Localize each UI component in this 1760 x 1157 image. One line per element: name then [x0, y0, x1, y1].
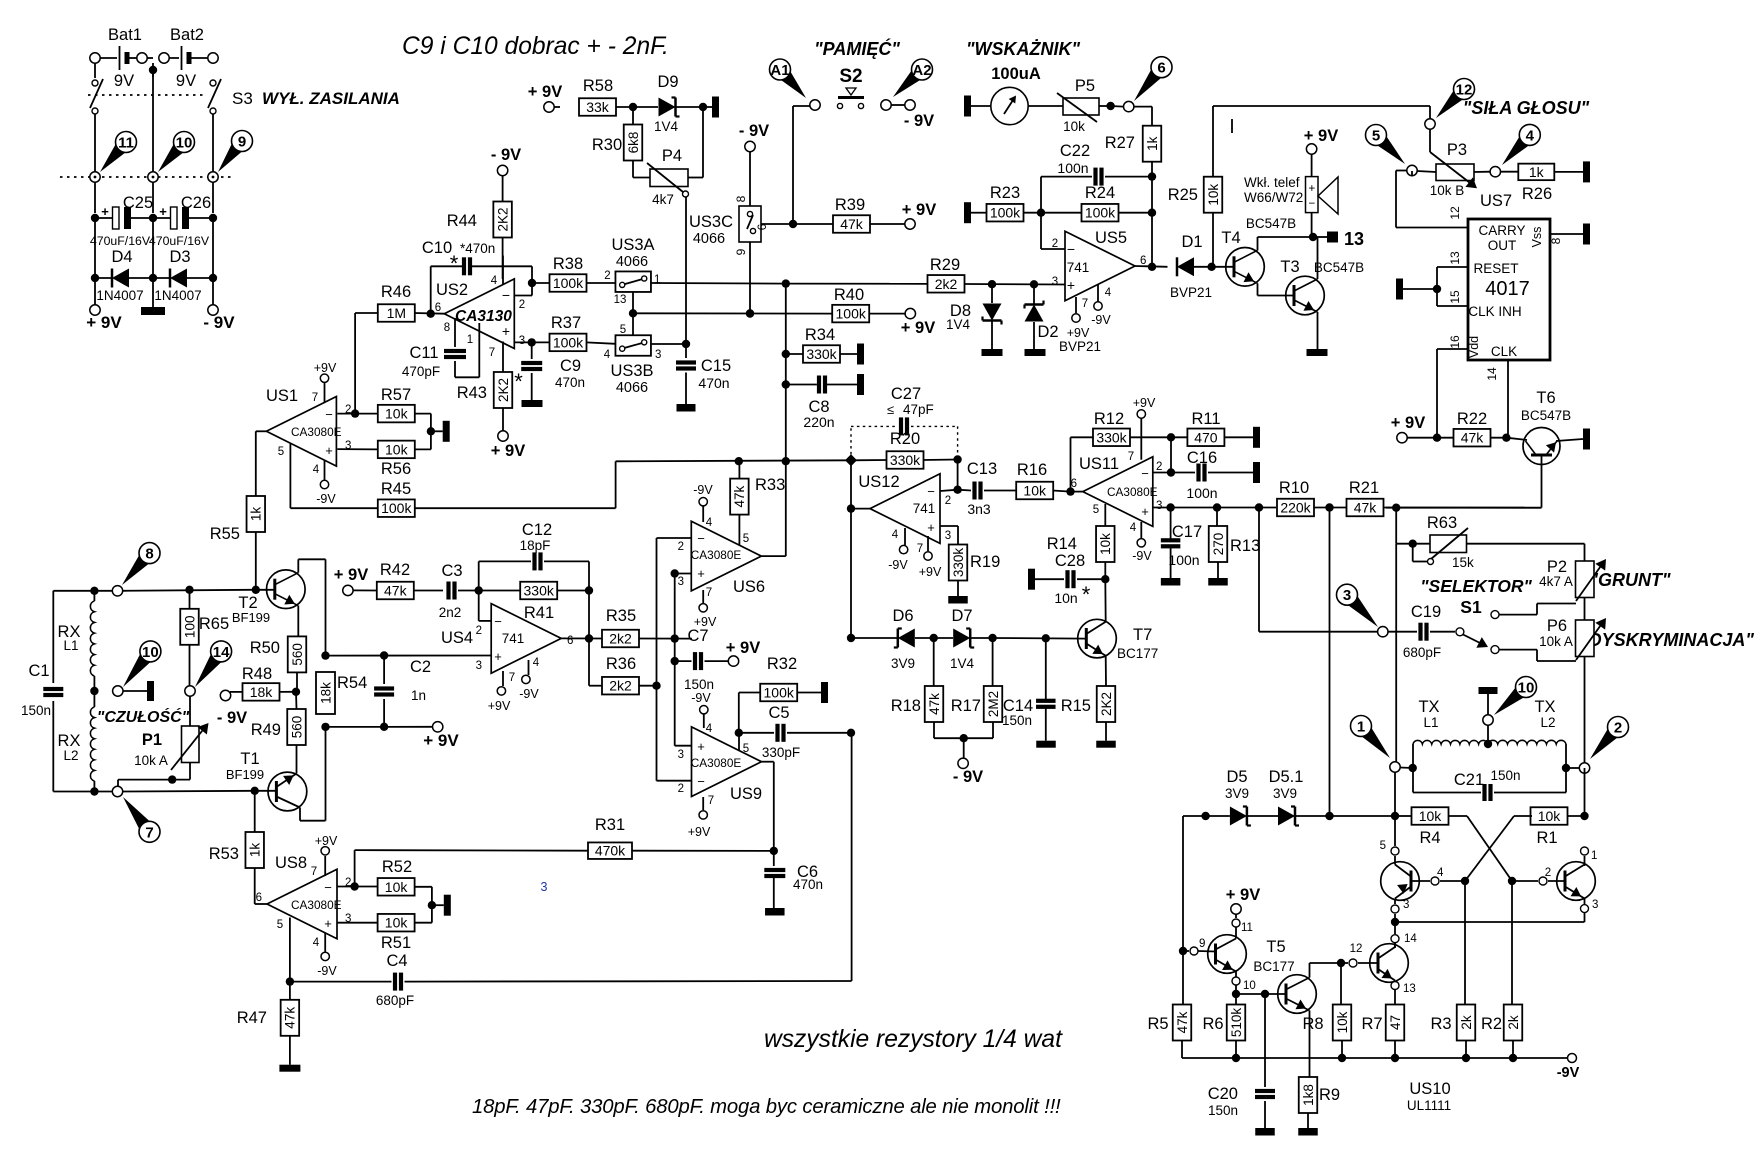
ground center: [152, 278, 154, 307]
svg-text:R15: R15: [1061, 697, 1091, 715]
svg-text:OUT: OUT: [1488, 238, 1517, 253]
svg-text:4: 4: [313, 464, 320, 476]
svg-text:3: 3: [345, 440, 351, 452]
svg-text:4017: 4017: [1485, 278, 1530, 300]
svg-text:+9V: +9V: [694, 615, 717, 629]
svg-text:L1: L1: [1423, 715, 1438, 730]
svg-text:T3: T3: [1280, 258, 1299, 276]
svg-text:330k: 330k: [951, 548, 966, 578]
svg-text:2: 2: [476, 625, 482, 637]
wire P4 wiper down: [685, 197, 687, 344]
svg-text:W66/W72: W66/W72: [1244, 190, 1303, 205]
svg-text:10: 10: [1243, 980, 1256, 992]
wire R10R21 junction down: [1329, 508, 1331, 817]
svg-text:150n: 150n: [1490, 768, 1520, 783]
svg-text:10k: 10k: [385, 406, 409, 422]
svg-text:10k: 10k: [1063, 119, 1085, 134]
wire to T7 base: [993, 637, 1086, 640]
svg-text:WYŁ. ZASILANIA: WYŁ. ZASILANIA: [262, 89, 400, 108]
wire US8 pin3: [338, 922, 378, 924]
meter 100uA: [991, 87, 1028, 124]
wire T4 emitter to T3: [1257, 283, 1259, 295]
svg-text:100k: 100k: [836, 306, 867, 322]
svg-text:−: −: [324, 880, 332, 895]
svg-text:R3: R3: [1430, 1015, 1451, 1033]
svg-text:4: 4: [892, 529, 899, 541]
wire US11 pin4: [1140, 522, 1142, 538]
svg-text:5: 5: [278, 446, 284, 458]
svg-text:7: 7: [1128, 451, 1134, 463]
svg-text:10k: 10k: [1206, 184, 1221, 206]
wire US9 pin2: [657, 780, 692, 782]
svg-text:R10: R10: [1279, 479, 1309, 497]
wire US3A out row: [651, 282, 786, 285]
wire -9V rail: [1182, 1057, 1567, 1059]
svg-text:R49: R49: [251, 721, 281, 739]
svg-text:US3B: US3B: [610, 362, 653, 380]
svg-text:13: 13: [614, 294, 627, 306]
svg-text:US11: US11: [1079, 455, 1119, 473]
wire X cross: [1467, 816, 1512, 881]
svg-text:10k: 10k: [385, 879, 409, 895]
svg-text:C12: C12: [522, 521, 552, 539]
svg-text:10k B: 10k B: [1430, 183, 1465, 198]
svg-text:UL1111: UL1111: [1407, 1098, 1451, 1113]
svg-text:15k: 15k: [1452, 555, 1474, 570]
svg-text:R22: R22: [1457, 410, 1487, 428]
svg-text:18pF. 47pF. 330pF. 680pF. moga: 18pF. 47pF. 330pF. 680pF. moga byc ceram…: [472, 1096, 1061, 1118]
svg-text:6: 6: [1140, 255, 1146, 267]
svg-text:10: 10: [142, 644, 159, 661]
svg-text:13: 13: [1344, 229, 1364, 249]
svg-text:560: 560: [289, 716, 304, 739]
svg-text:4: 4: [706, 517, 713, 529]
svg-text:CLK: CLK: [1491, 344, 1517, 359]
svg-text:2k2: 2k2: [609, 631, 632, 647]
svg-text:R26: R26: [1522, 185, 1552, 203]
svg-text:D3: D3: [169, 248, 190, 266]
svg-text:4: 4: [533, 657, 540, 669]
svg-text:US8: US8: [275, 854, 307, 872]
svg-text:1: 1: [467, 334, 473, 346]
svg-text:C21: C21: [1454, 771, 1484, 789]
svg-text:470k: 470k: [595, 843, 626, 859]
svg-text:US3A: US3A: [611, 236, 654, 254]
svg-text:+9V: +9V: [688, 825, 711, 839]
svg-text:+: +: [1308, 183, 1315, 195]
svg-text:4066: 4066: [616, 254, 648, 270]
svg-text:- 9V: - 9V: [739, 122, 769, 140]
node 2: [1590, 724, 1622, 759]
svg-text:S2: S2: [839, 66, 862, 87]
svg-text:33k: 33k: [586, 99, 610, 115]
svg-text:3: 3: [519, 335, 525, 347]
svg-text:−: −: [1067, 241, 1075, 257]
svg-text:100n: 100n: [1168, 552, 1199, 568]
svg-text:1n: 1n: [411, 688, 426, 703]
svg-text:2: 2: [604, 270, 610, 282]
svg-text:R42: R42: [380, 561, 410, 579]
svg-text:+: +: [927, 520, 935, 535]
wire US8 pin2: [338, 886, 378, 888]
svg-text:D7: D7: [951, 607, 972, 625]
svg-text:4: 4: [604, 349, 611, 361]
svg-text:P6: P6: [1547, 617, 1567, 635]
svg-text:3: 3: [945, 530, 951, 542]
svg-text:R6: R6: [1202, 1015, 1223, 1033]
svg-text:2K2: 2K2: [496, 378, 511, 402]
wire T6 emitter to R21: [1541, 455, 1543, 508]
svg-text:2K2: 2K2: [495, 207, 510, 231]
wire US2 pin4: [502, 256, 504, 285]
svg-text:BVP21: BVP21: [1059, 339, 1101, 354]
svg-text:D9: D9: [657, 73, 678, 91]
svg-text:- 9V: - 9V: [904, 112, 934, 130]
svg-text:330k: 330k: [1096, 429, 1127, 445]
wire US4 pin7: [502, 671, 504, 686]
svg-text:11: 11: [1241, 922, 1253, 934]
svg-text:- 9V: - 9V: [217, 709, 247, 727]
svg-text:T4: T4: [1221, 229, 1240, 247]
rail US6US9 pin2: [656, 538, 658, 781]
wire US11 out: [1066, 487, 1074, 495]
svg-text:12: 12: [1456, 82, 1473, 99]
svg-text:+ 9V: + 9V: [423, 731, 459, 750]
wall R57R56: [431, 430, 443, 432]
wire bottom row: [53, 791, 112, 793]
svg-text:−: −: [502, 287, 510, 303]
svg-text:R33: R33: [755, 476, 785, 494]
svg-text:4: 4: [1130, 522, 1137, 534]
svg-text:−: −: [1141, 466, 1149, 481]
svg-text:3: 3: [1403, 899, 1409, 911]
svg-text:330k: 330k: [524, 583, 555, 599]
svg-text:4: 4: [313, 937, 320, 949]
svg-text:10k A: 10k A: [1539, 634, 1573, 649]
rail US6US9 pin3: [674, 574, 676, 746]
svg-text:10: 10: [176, 135, 193, 152]
node 10 mid: [123, 649, 155, 687]
svg-text:4: 4: [1437, 867, 1444, 879]
svg-text:15: 15: [1448, 290, 1462, 304]
svg-text:−: −: [697, 531, 705, 546]
svg-text:9V: 9V: [176, 72, 196, 90]
wire T1 top lead: [296, 745, 298, 774]
svg-text:47k: 47k: [927, 693, 942, 715]
wire mid column down: [785, 284, 787, 462]
wire T5 emitter: [1309, 1011, 1311, 1078]
wire US11 pin3 row: [1152, 507, 1276, 509]
svg-text:3: 3: [1343, 587, 1351, 604]
svg-text:9: 9: [734, 248, 748, 255]
svg-text:R36: R36: [606, 655, 636, 673]
wall R52R51: [432, 904, 444, 906]
wire S1 down-throw: [1499, 649, 1537, 651]
svg-text:18pF: 18pF: [520, 538, 551, 553]
svg-text:R16: R16: [1017, 461, 1047, 479]
svg-text:C19: C19: [1411, 603, 1441, 621]
wire US12 pin3 to R19: [940, 525, 958, 527]
svg-text:-9V: -9V: [1091, 313, 1111, 327]
svg-text:560: 560: [290, 643, 305, 666]
wire +9V out: [94, 278, 96, 305]
svg-text:D4: D4: [111, 248, 132, 266]
svg-text:−: −: [325, 407, 333, 422]
svg-text:BC177: BC177: [1253, 959, 1294, 974]
svg-text:+: +: [159, 204, 167, 219]
svg-text:330k: 330k: [890, 452, 921, 468]
wire pin13 row to R40: [633, 312, 833, 314]
svg-text:5: 5: [1380, 840, 1386, 852]
svg-text:100k: 100k: [553, 275, 584, 291]
svg-text:"CZUŁOŚĆ": "CZUŁOŚĆ": [97, 707, 190, 726]
svg-text:3: 3: [1156, 500, 1162, 512]
svg-text:8: 8: [444, 322, 450, 334]
svg-text:"PAMIĘĆ": "PAMIĘĆ": [814, 38, 900, 59]
svg-text:1k: 1k: [1529, 164, 1545, 180]
wire US1 pin2: [337, 413, 355, 415]
wire US9 pin3: [675, 745, 692, 747]
svg-text:1V4: 1V4: [950, 656, 975, 671]
svg-text:R35: R35: [606, 607, 636, 625]
svg-text:US2: US2: [436, 281, 468, 299]
svg-text:1N4007: 1N4007: [96, 288, 143, 303]
svg-text:47: 47: [1388, 1015, 1403, 1030]
wire bat1 left: [94, 63, 96, 78]
svg-text:Vdd: Vdd: [1467, 336, 1481, 358]
svg-text:R44: R44: [447, 212, 477, 230]
svg-text:470n: 470n: [793, 877, 823, 892]
svg-text:R4: R4: [1419, 829, 1440, 847]
terminal battery row: [90, 53, 100, 63]
svg-text:5: 5: [1372, 128, 1380, 145]
svg-text:US3C: US3C: [689, 213, 733, 231]
svg-text:4066: 4066: [616, 380, 648, 396]
svg-text:R58: R58: [583, 77, 613, 95]
svg-text:"SIŁA GŁOSU": "SIŁA GŁOSU": [1463, 98, 1590, 118]
svg-text:"WSKAŻNIK": "WSKAŻNIK": [966, 39, 1081, 59]
svg-text:6: 6: [1157, 60, 1165, 77]
wire US4 pin2: [479, 620, 492, 622]
svg-text:100n: 100n: [1057, 160, 1088, 176]
svg-text:10k A: 10k A: [134, 753, 168, 768]
svg-text:12: 12: [1448, 206, 1462, 220]
wire US5 pin2: [1040, 213, 1042, 249]
svg-text:2: 2: [678, 541, 684, 553]
svg-text:"GRUNT": "GRUNT": [1589, 570, 1671, 590]
svg-text:R31: R31: [595, 816, 625, 834]
svg-text:+: +: [502, 323, 510, 339]
svg-text:470n: 470n: [698, 375, 729, 391]
svg-text:680pF: 680pF: [376, 993, 414, 1008]
svg-text:BF199: BF199: [226, 767, 264, 782]
svg-text:7: 7: [509, 672, 515, 684]
svg-text:D5.1: D5.1: [1269, 768, 1304, 786]
svg-text:+9V: +9V: [488, 699, 511, 713]
svg-text:P3: P3: [1447, 141, 1467, 159]
svg-text:4: 4: [491, 275, 498, 287]
svg-text:3: 3: [1052, 276, 1058, 288]
svg-text:7: 7: [708, 795, 714, 807]
wall meter left: [964, 96, 971, 117]
svg-text:US10: US10: [1409, 1080, 1450, 1098]
svg-text:9V: 9V: [114, 72, 134, 90]
svg-text:C28: C28: [1055, 552, 1085, 570]
svg-text:47k: 47k: [384, 583, 408, 599]
svg-text:-9V: -9V: [519, 687, 539, 701]
svg-text:47pF: 47pF: [903, 402, 934, 417]
wire US4 pin4: [528, 660, 530, 675]
svg-text:BC547B: BC547B: [1521, 408, 1571, 423]
wire US1 pin4: [324, 460, 326, 480]
svg-text:1V4: 1V4: [654, 119, 679, 134]
svg-text:2: 2: [1156, 461, 1162, 473]
wire US9 out: [762, 761, 774, 763]
wire +9V row C2: [326, 726, 433, 728]
svg-text:2k2: 2k2: [609, 678, 632, 694]
svg-text:R25: R25: [1168, 186, 1198, 204]
svg-text:R47: R47: [237, 1009, 267, 1027]
svg-text:1k: 1k: [249, 507, 264, 522]
svg-text:7: 7: [312, 392, 318, 404]
node 5: [1373, 132, 1405, 164]
svg-text:R30: R30: [592, 136, 622, 154]
wire US6 out: [761, 555, 786, 557]
svg-text:7: 7: [489, 347, 495, 359]
node 11: [100, 139, 130, 172]
wire S2 left down: [793, 105, 810, 107]
svg-text:R55: R55: [210, 525, 240, 543]
svg-text:+ 9V: + 9V: [491, 442, 525, 460]
svg-text:150n: 150n: [21, 703, 51, 718]
svg-text:4k7 A: 4k7 A: [1539, 574, 1573, 589]
svg-text:R50: R50: [250, 639, 280, 657]
wire S1 up-throw: [1491, 611, 1499, 619]
svg-text:L1: L1: [63, 638, 78, 653]
svg-text:R18: R18: [891, 697, 921, 715]
node 9: [218, 139, 246, 172]
transistor US10 QC (pins 14,12,13): [1370, 944, 1409, 983]
svg-text:100n: 100n: [1186, 485, 1217, 501]
svg-text:7: 7: [1082, 298, 1088, 310]
svg-text:7: 7: [145, 824, 153, 841]
svg-text:18k: 18k: [250, 684, 274, 700]
svg-text:2k: 2k: [1506, 1015, 1521, 1030]
svg-text:47k: 47k: [1354, 500, 1378, 516]
svg-text:6: 6: [435, 302, 441, 314]
svg-text:C9: C9: [560, 357, 581, 375]
svg-text:L2: L2: [1540, 715, 1555, 730]
svg-text:6: 6: [256, 892, 262, 904]
svg-text:R57: R57: [381, 386, 411, 404]
wire US8 pin2 up R31: [354, 850, 356, 886]
svg-text:+: +: [101, 204, 109, 219]
svg-text:R65: R65: [199, 615, 229, 633]
svg-text:3: 3: [678, 576, 684, 588]
svg-text:C11: C11: [409, 344, 438, 362]
wire US9 pin4: [703, 714, 705, 728]
node A2: [893, 66, 925, 97]
svg-text:+ 9V: + 9V: [901, 319, 935, 337]
wire T4 collector: [1257, 237, 1259, 250]
svg-text:100k: 100k: [381, 500, 412, 516]
transistor US10 QB (pins 1,2,3): [1581, 847, 1589, 855]
svg-text:*: *: [514, 369, 523, 394]
wire US5 out: [1135, 265, 1168, 268]
svg-text:−: −: [494, 614, 502, 629]
wire long mid feedback: [616, 460, 851, 461]
wire US9 pin5 C5: [738, 733, 740, 751]
svg-text:R5: R5: [1147, 1015, 1168, 1033]
wire US3C pin6 right: [761, 223, 793, 225]
svg-text:C7: C7: [687, 627, 708, 645]
svg-text:CA3080E: CA3080E: [691, 756, 742, 770]
svg-text:R13: R13: [1230, 537, 1260, 555]
svg-text:TX: TX: [1418, 698, 1439, 716]
wire R10 left down to C19: [1258, 508, 1260, 632]
switch S3: [92, 80, 98, 86]
svg-text:4: 4: [1105, 287, 1112, 299]
svg-text:1V4: 1V4: [946, 317, 971, 332]
svg-text:+9V: +9V: [315, 834, 338, 848]
svg-text:R51: R51: [381, 934, 411, 952]
terminal P3 wiper: [1425, 119, 1435, 129]
svg-text:CA3080E: CA3080E: [291, 425, 342, 439]
svg-text:2: 2: [945, 495, 951, 507]
svg-text:R53: R53: [209, 845, 239, 863]
svg-text:C13: C13: [967, 460, 997, 478]
transistor US10 QA (pins 5,4,3): [1394, 816, 1396, 846]
svg-text:R43: R43: [457, 384, 487, 402]
wire US8 pin7: [324, 856, 326, 876]
svg-text:R19: R19: [970, 553, 1000, 571]
svg-text:10k: 10k: [1538, 808, 1562, 824]
svg-text:2: 2: [1614, 720, 1622, 737]
node 10 TX: [1494, 683, 1529, 715]
svg-text:1: 1: [1591, 850, 1597, 862]
svg-text:Bat1: Bat1: [108, 26, 142, 44]
svg-text:11: 11: [118, 135, 134, 152]
svg-text:2n2: 2n2: [439, 605, 462, 620]
svg-text:C20: C20: [1208, 1085, 1238, 1103]
svg-text:2K2: 2K2: [1099, 692, 1114, 716]
svg-text:- 9V: - 9V: [203, 313, 235, 332]
svg-text:R11: R11: [1191, 410, 1220, 428]
svg-text:US1: US1: [266, 387, 298, 405]
wire US1 pin3: [337, 448, 378, 450]
svg-text:Wkł. telef: Wkł. telef: [1244, 175, 1300, 190]
svg-text:47k: 47k: [283, 1007, 298, 1029]
mark I: [1231, 119, 1233, 133]
wire R63 left rail: [1395, 508, 1397, 544]
svg-text:10k: 10k: [1419, 808, 1443, 824]
svg-text:-9V: -9V: [317, 964, 337, 978]
svg-text:P5: P5: [1075, 77, 1095, 95]
wall reset: [1396, 279, 1403, 300]
svg-text:13: 13: [1403, 983, 1416, 995]
svg-text:R48: R48: [242, 665, 272, 683]
svg-text:TX: TX: [1534, 698, 1555, 716]
svg-text:6k8: 6k8: [626, 132, 641, 154]
svg-text:4: 4: [1526, 127, 1535, 144]
wire -9V terminal: [963, 738, 965, 758]
svg-text:R8: R8: [1302, 1015, 1323, 1033]
wire -9V out: [212, 278, 214, 305]
svg-text:BF199: BF199: [232, 610, 270, 625]
wire center rail: [152, 63, 154, 77]
wire US12 pin4: [904, 528, 906, 545]
svg-text:220k: 220k: [1280, 500, 1311, 516]
